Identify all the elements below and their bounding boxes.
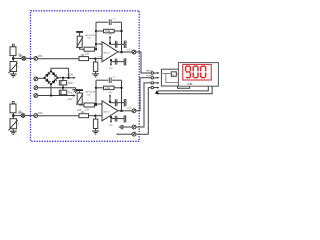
seven segment digits 900 — [186, 66, 206, 77]
capacitor C6 — [62, 88, 64, 91]
wire — [118, 133, 132, 135]
op-amp U2 — [102, 101, 118, 121]
wire bridge bottom — [50, 84, 52, 95]
capacitor C13 coupling — [121, 125, 123, 129]
-10V pin flag — [110, 117, 112, 122]
node B junction — [12, 114, 15, 117]
svg-text:+10V: +10V — [108, 34, 113, 36]
-10V pin flag — [110, 60, 112, 65]
ground — [92, 131, 99, 134]
wire display ground A — [158, 86, 208, 91]
wire out3 to connector row3 — [136, 83, 151, 127]
node A junction — [12, 57, 15, 60]
wire right vertical — [121, 80, 123, 111]
wire — [123, 126, 132, 128]
wire — [12, 113, 14, 119]
capacitor C7 — [124, 41, 126, 48]
svg-text:+10V: +10V — [108, 92, 113, 94]
wire out1 to connector row1 — [136, 52, 151, 73]
power bar — [76, 89, 83, 91]
wire — [12, 72, 14, 74]
wire output — [118, 51, 132, 53]
wire noninverting input — [89, 115, 103, 117]
resistor R5 — [84, 47, 95, 51]
terminal OUT4 — [132, 132, 136, 136]
wire bridge top loop — [51, 68, 69, 78]
potentiometer RV1 — [77, 36, 82, 47]
diode D3 — [45, 78, 50, 83]
wire inside block — [161, 74, 179, 83]
svg-text:0.90: 0.90 — [98, 56, 102, 58]
capacitor C1 — [109, 19, 111, 25]
display window — [183, 64, 211, 80]
+10V arrow flag — [71, 77, 74, 79]
terminal input 1a — [22, 57, 26, 61]
svg-text:-10V: -10V — [108, 68, 113, 70]
capacitor C5 — [62, 78, 64, 81]
wire out2 to connector row2 — [136, 78, 151, 111]
wire — [38, 77, 45, 79]
wire to stage1 input — [38, 58, 79, 60]
ground arrow flag — [116, 133, 118, 135]
resistor R7 input — [79, 57, 89, 61]
svg-text:AD741: AD741 — [104, 110, 111, 113]
potentiometer RV2 — [77, 93, 82, 104]
capacitor C8 — [124, 99, 126, 106]
wire right vertical — [121, 22, 123, 52]
power bar — [76, 31, 83, 33]
wire — [12, 129, 14, 131]
wire sensor1 — [13, 57, 22, 59]
wire noninverting input — [89, 58, 103, 60]
wire supply top — [110, 102, 124, 104]
resistor R6 — [84, 103, 95, 107]
wire display ground B — [157, 86, 212, 94]
thermistor RT2 — [10, 119, 17, 129]
svg-text:BX1: BX1 — [38, 56, 43, 58]
svg-text:OUT2: OUT2 — [127, 108, 132, 110]
capacitor C3 — [115, 41, 117, 48]
terminal AC1 — [34, 77, 38, 81]
wire mid rail — [38, 87, 76, 89]
svg-text:-10V: -10V — [67, 98, 73, 101]
+10V pin flag — [109, 37, 111, 43]
diode D2 — [52, 72, 57, 77]
ground flag — [155, 90, 159, 94]
connector J1 pin2 — [151, 77, 153, 79]
ground mid rail — [75, 88, 77, 90]
connector J1 pin1 — [151, 72, 153, 74]
wire supply bottom — [111, 61, 124, 63]
wire adc to display — [178, 86, 190, 88]
wire — [12, 56, 14, 62]
resistor R10 to ground — [95, 116, 97, 119]
wire inverting input — [96, 103, 102, 105]
voltmeter display DS1 — [178, 63, 218, 87]
wire plus rail — [58, 77, 71, 79]
connector J1 pin3 — [151, 82, 153, 84]
terminal AC2 — [34, 94, 38, 98]
capacitor C4 — [115, 99, 117, 106]
wire node-L vertical — [95, 22, 97, 49]
svg-text:-: - — [103, 104, 104, 107]
power nub top-left branch — [13, 44, 15, 46]
thermistor RT1 — [10, 62, 17, 72]
wire — [12, 45, 14, 47]
resistor R1 — [10, 47, 16, 56]
resistor R3 feedback — [96, 30, 104, 32]
terminal input 2b — [34, 114, 38, 118]
wire out4 to connector row4 — [136, 88, 151, 135]
terminal OUT3 — [132, 125, 136, 129]
svg-text:-: - — [103, 45, 104, 48]
terminal input 1b — [34, 57, 38, 61]
terminal CT — [34, 86, 38, 90]
wire — [26, 57, 34, 59]
wire — [80, 103, 84, 106]
diode D4 — [52, 79, 57, 84]
svg-text:100k: 100k — [105, 88, 111, 90]
svg-text:470u: 470u — [68, 83, 74, 85]
terminal OUT2 — [132, 109, 136, 113]
power nub bottom-left branch — [13, 101, 15, 103]
capacitor C2 — [109, 77, 111, 83]
wire supply top — [110, 43, 124, 45]
terminal input 2a — [21, 114, 25, 118]
wire bottom rail — [38, 95, 70, 97]
capacitor C9 — [115, 59, 117, 65]
capacitor C12 — [124, 115, 126, 122]
-10V arrow flag — [70, 95, 73, 97]
svg-text:+10V: +10V — [67, 74, 73, 77]
capacitor C10 — [115, 116, 117, 122]
wire coupling lead — [119, 126, 122, 128]
resistor R2 — [10, 104, 16, 113]
svg-text:AD741: AD741 — [104, 51, 111, 54]
svg-text:470u: 470u — [68, 93, 74, 95]
wire node-L vertical — [95, 80, 97, 105]
ground — [10, 74, 17, 77]
op-amp U1 — [102, 42, 118, 62]
terminal OUT1 — [132, 50, 136, 54]
wire inverting input — [96, 43, 102, 45]
wire — [25, 115, 34, 117]
wire to stage2 input — [38, 115, 79, 117]
+10V pin flag — [109, 96, 111, 102]
connector J1 pin4 — [151, 86, 153, 88]
svg-text:1 888: 1 888 — [187, 84, 193, 86]
resistor R9 to ground — [95, 59, 97, 62]
svg-text:-10V: -10V — [108, 125, 113, 127]
svg-text:AD741LM: AD741LM — [85, 91, 95, 94]
ADC sub box — [171, 72, 176, 77]
bridge rectifier BR1 — [43, 70, 58, 85]
wire — [12, 103, 14, 105]
wire feedback top — [96, 79, 108, 81]
resistor R8 input — [79, 114, 89, 118]
resistor R4 feedback — [96, 87, 104, 89]
ground — [10, 131, 17, 134]
svg-text:1.08: 1.08 — [77, 110, 82, 112]
junction — [62, 87, 64, 89]
diode D1 — [45, 72, 50, 77]
dashed selection border — [31, 11, 140, 142]
wire feedback top — [96, 21, 108, 23]
ADC block box — [161, 69, 179, 86]
svg-text:AD741LM: AD741LM — [85, 34, 95, 37]
svg-text:BX2: BX2 — [38, 113, 43, 115]
svg-text:OUT1: OUT1 — [127, 49, 132, 51]
capacitor C11 — [124, 58, 126, 65]
wire — [80, 47, 84, 49]
ground — [92, 74, 99, 77]
wire sensor2 — [13, 115, 21, 117]
wire supply bottom — [111, 118, 124, 120]
wire output — [118, 110, 132, 112]
